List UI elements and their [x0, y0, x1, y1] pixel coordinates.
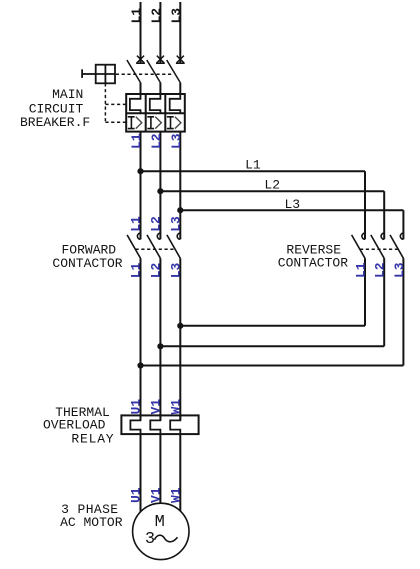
svg-text:L1: L1 [245, 157, 261, 172]
svg-text:MAIN: MAIN [52, 87, 83, 102]
svg-text:L2: L2 [149, 8, 164, 24]
svg-text:L1: L1 [129, 8, 144, 24]
svg-text:L2: L2 [149, 133, 164, 149]
svg-text:3: 3 [145, 530, 155, 549]
svg-text:L1: L1 [129, 216, 144, 232]
svg-text:W1: W1 [168, 487, 183, 503]
svg-text:CONTACTOR: CONTACTOR [52, 256, 122, 271]
svg-text:U1: U1 [129, 399, 144, 415]
svg-text:RELAY: RELAY [71, 431, 114, 446]
svg-text:V1: V1 [149, 399, 164, 415]
svg-text:U1: U1 [129, 487, 144, 503]
svg-text:BREAKER.F: BREAKER.F [20, 115, 90, 130]
svg-text:W1: W1 [168, 399, 183, 415]
svg-text:L1: L1 [129, 133, 144, 149]
svg-text:L3: L3 [168, 216, 183, 232]
svg-text:L1: L1 [353, 262, 368, 278]
svg-text:L3: L3 [169, 133, 184, 149]
svg-text:M: M [155, 513, 165, 532]
svg-text:OVERLOAD: OVERLOAD [43, 417, 106, 432]
svg-text:L1: L1 [129, 262, 144, 278]
svg-text:L3: L3 [285, 197, 301, 212]
svg-text:L3: L3 [168, 262, 183, 278]
svg-text:CONTACTOR: CONTACTOR [278, 256, 348, 271]
svg-text:L2: L2 [264, 177, 280, 192]
svg-text:L3: L3 [392, 262, 407, 278]
svg-text:L2: L2 [149, 262, 164, 278]
svg-text:V1: V1 [149, 487, 164, 503]
svg-text:AC MOTOR: AC MOTOR [60, 515, 123, 530]
svg-text:L3: L3 [169, 8, 184, 24]
svg-text:L2: L2 [149, 216, 164, 232]
svg-text:L2: L2 [373, 262, 388, 278]
